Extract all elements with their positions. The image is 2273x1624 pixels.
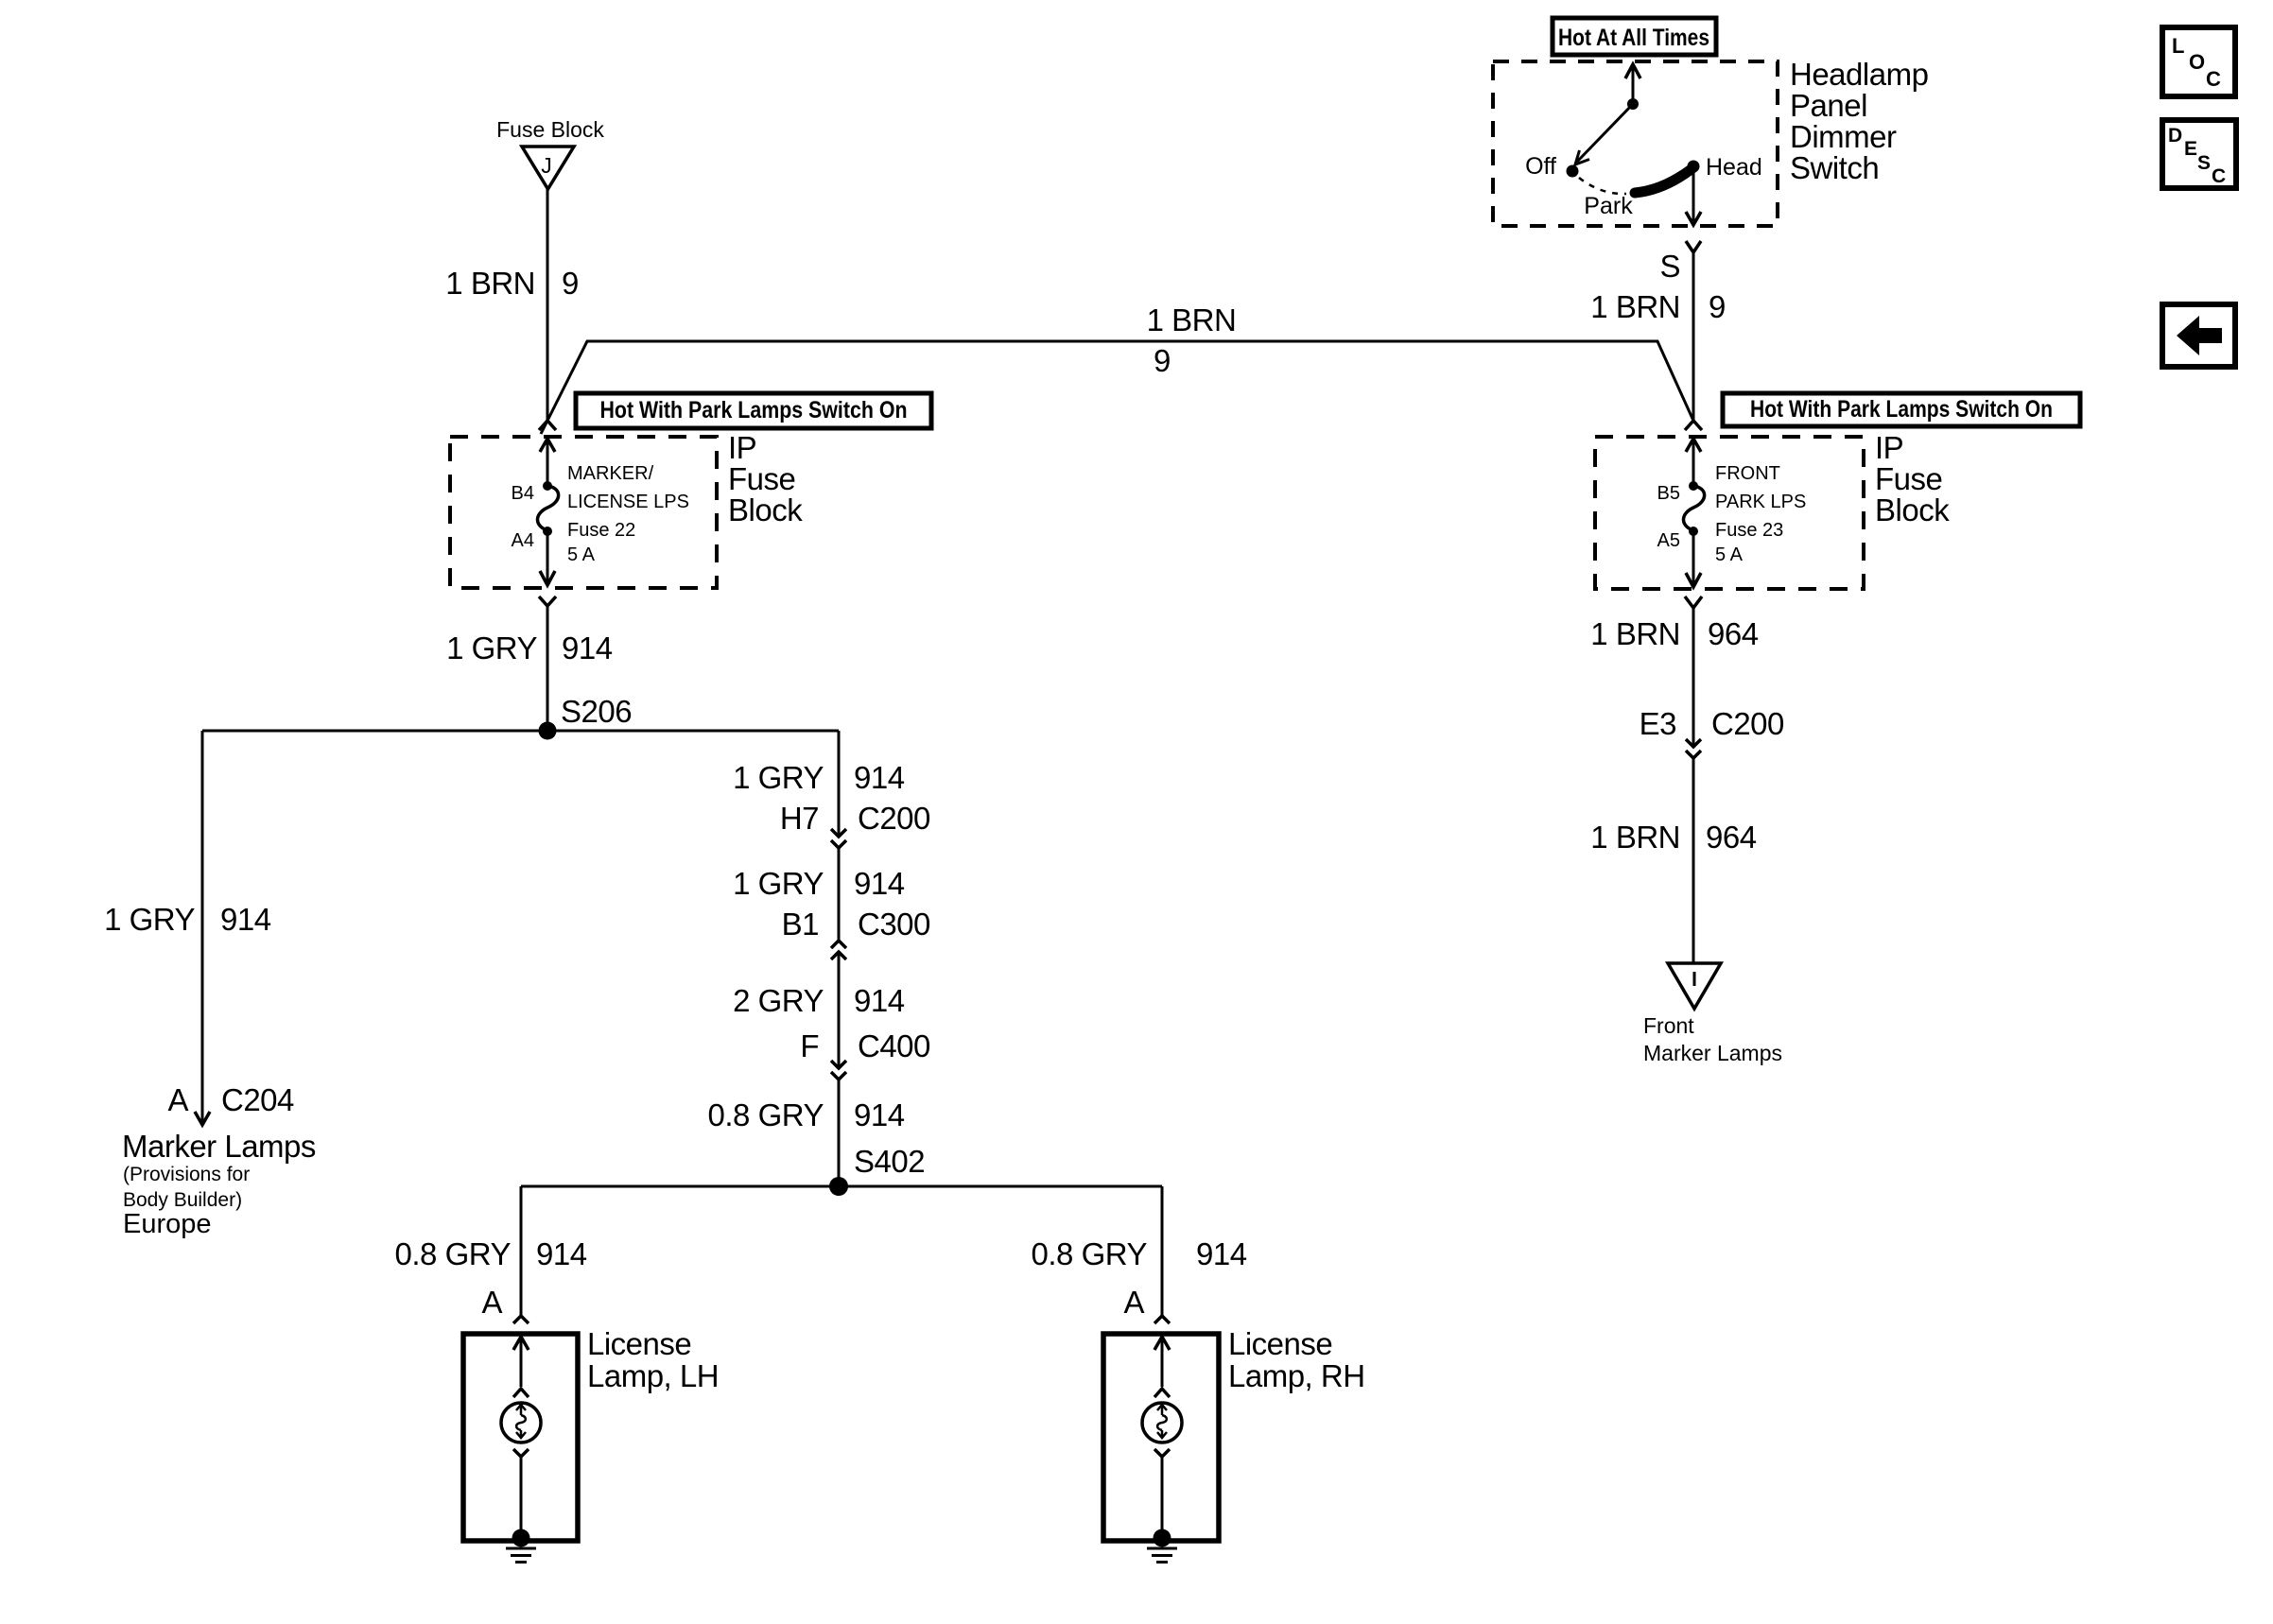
splice S402 dot <box>829 1177 848 1196</box>
terminal arrow down at A4 <box>540 531 555 585</box>
svg-text:IP: IP <box>728 430 756 465</box>
svg-text:Park: Park <box>1584 193 1633 219</box>
pin B5 dot <box>1689 481 1698 491</box>
svg-text:C400: C400 <box>858 1028 930 1063</box>
wire label 1 BRN 964 (lower) <box>1590 820 1756 855</box>
wire label 1 GRY 914 (left branch) <box>104 902 271 937</box>
svg-text:F: F <box>800 1028 819 1063</box>
switch common terminal arrow up <box>1625 64 1640 104</box>
svg-text:L: L <box>2172 34 2184 58</box>
switch arm with arrowhead toward Off <box>1575 104 1633 164</box>
splice S206 dot <box>539 722 557 740</box>
wire S206 branch horizontal <box>202 730 839 733</box>
connector B1 C300 symbol (up) <box>831 941 846 959</box>
right IP Fuse Block name <box>1875 430 1950 527</box>
left IP fuse block dashed box <box>450 437 717 588</box>
wire S206 right branch down <box>838 731 841 836</box>
wire left branch down to C204 <box>201 731 204 1124</box>
fuse 23 text <box>1715 463 1806 565</box>
svg-text:A: A <box>481 1285 502 1320</box>
pin B4 dot <box>543 481 552 491</box>
license lamp LH box <box>463 1334 578 1541</box>
fuse element squiggle Fuse 23 <box>1683 486 1704 530</box>
LH ground symbol <box>506 1548 536 1563</box>
svg-text:1 BRN: 1 BRN <box>1590 289 1680 324</box>
fuse block triangle connector J label <box>496 117 604 142</box>
DESC icon box <box>2162 120 2236 188</box>
svg-text:Marker Lamps: Marker Lamps <box>1643 1041 1782 1065</box>
svg-text:B4: B4 <box>512 483 534 504</box>
svg-text:Head: Head <box>1706 154 1762 181</box>
wire E3 down to front marker lamps <box>1692 758 1695 963</box>
svg-text:C204: C204 <box>221 1082 294 1117</box>
wire 1 BRN 9 horizontal bus <box>541 341 1693 434</box>
connector label B1 C300 <box>782 907 930 942</box>
RH lamp chevron below bulb <box>1154 1449 1170 1457</box>
thick contact arc Park to Head <box>1635 168 1692 193</box>
svg-text:1 BRN: 1 BRN <box>1590 616 1680 651</box>
connector H7 C200 symbol <box>831 829 846 848</box>
wire label 1 BRN 964 (upper) <box>1590 616 1758 651</box>
svg-text:E3: E3 <box>1640 706 1676 741</box>
triangle connector J <box>522 147 574 189</box>
svg-text:1 GRY: 1 GRY <box>104 902 195 937</box>
wire fuse 23 down to E3 <box>1692 608 1695 747</box>
wire C200 to C300 <box>838 848 841 941</box>
bulb LH <box>501 1403 541 1443</box>
LH lamp wire to ground <box>520 1457 523 1538</box>
pin label A (RH) <box>1123 1285 1144 1320</box>
svg-text:9: 9 <box>1154 343 1171 378</box>
terminal arrow down at A5 <box>1686 531 1701 587</box>
svg-text:C: C <box>2212 165 2226 187</box>
connector chevron at LH lamp <box>513 1316 529 1323</box>
svg-text:9: 9 <box>1709 289 1726 324</box>
svg-text:1 GRY: 1 GRY <box>446 631 537 665</box>
switch labels Off Park Head <box>1525 153 1762 219</box>
back arrow icon box <box>2162 304 2235 367</box>
svg-text:A5: A5 <box>1657 530 1680 551</box>
svg-text:Marker Lamps: Marker Lamps <box>122 1129 316 1164</box>
svg-text:Fuse 23: Fuse 23 <box>1715 520 1783 541</box>
pin labels B5 A5 <box>1657 483 1680 551</box>
svg-text:Fuse 22: Fuse 22 <box>567 520 635 541</box>
svg-text:PARK LPS: PARK LPS <box>1715 492 1806 512</box>
svg-text:9: 9 <box>562 266 579 301</box>
pin labels B4 A4 <box>512 483 534 551</box>
header Hot With Park Lamps Switch On (right) <box>1723 393 2080 426</box>
marker lamps europe labels <box>122 1129 316 1239</box>
svg-text:License: License <box>1228 1326 1332 1361</box>
wire label 1 GRY 914 <box>446 631 613 665</box>
svg-text:Hot With Park Lamps Switch On: Hot With Park Lamps Switch On <box>1750 396 2053 423</box>
pin A4 dot <box>543 527 552 536</box>
svg-text:A: A <box>1123 1285 1144 1320</box>
svg-text:B1: B1 <box>782 907 819 942</box>
LH ground dot <box>512 1529 530 1547</box>
svg-text:IP: IP <box>1875 430 1903 465</box>
switch output arrow down <box>1686 166 1701 225</box>
svg-text:Headlamp: Headlamp <box>1790 57 1928 92</box>
svg-text:914: 914 <box>854 1097 905 1132</box>
svg-text:0.8 GRY: 0.8 GRY <box>395 1236 512 1271</box>
svg-text:H7: H7 <box>780 801 819 836</box>
switch position Off dot <box>1567 165 1579 178</box>
switch pivot dot <box>1627 98 1639 110</box>
svg-text:B5: B5 <box>1657 483 1680 504</box>
svg-text:C200: C200 <box>1711 706 1784 741</box>
connector chevron below right fuse block <box>1685 596 1702 608</box>
wire from fuse to S206 <box>547 606 549 731</box>
svg-text:964: 964 <box>1708 616 1759 651</box>
svg-text:914: 914 <box>220 902 271 937</box>
svg-text:2 GRY: 2 GRY <box>733 983 824 1018</box>
svg-text:Off: Off <box>1525 153 1556 180</box>
svg-text:(Provisions for: (Provisions for <box>123 1164 250 1185</box>
svg-text:5 A: 5 A <box>567 544 596 565</box>
svg-text:C: C <box>2206 67 2221 91</box>
svg-text:Front: Front <box>1643 1013 1694 1038</box>
RH lamp terminal arrow <box>1154 1337 1170 1387</box>
wire label 1 GRY 914 (to C200) <box>733 760 905 795</box>
RH lamp wire to ground <box>1161 1457 1164 1538</box>
svg-text:C200: C200 <box>858 801 930 836</box>
svg-text:1 GRY: 1 GRY <box>733 866 824 901</box>
connector chevron below left fuse block <box>539 596 556 606</box>
svg-text:Hot With Park Lamps Switch On: Hot With Park Lamps Switch On <box>600 397 908 423</box>
connector chevron at RH lamp <box>1154 1316 1170 1323</box>
wire label 1 GRY 914 (to C300) <box>733 866 905 901</box>
wire S402 branch horizontal <box>521 1185 1162 1188</box>
connector E3 C200 symbol <box>1686 739 1701 758</box>
LH lamp chevron below bulb <box>513 1449 529 1457</box>
headlamp dimmer switch dashed box <box>1493 61 1778 226</box>
right IP fuse block dashed box <box>1595 437 1864 589</box>
svg-text:914: 914 <box>854 866 905 901</box>
svg-text:Hot At All Times: Hot At All Times <box>1558 25 1709 51</box>
svg-text:C300: C300 <box>858 907 930 942</box>
headlamp panel dimmer switch name <box>1790 57 1928 185</box>
LOC icon box <box>2162 27 2235 96</box>
wire label 0.8 GRY 914 <box>708 1097 905 1132</box>
svg-text:5 A: 5 A <box>1715 544 1744 565</box>
wire label 0.8 GRY 914 (RH) <box>1032 1236 1247 1271</box>
svg-text:964: 964 <box>1706 820 1757 855</box>
license lamp LH name <box>587 1326 719 1393</box>
front marker lamps label <box>1643 1013 1782 1065</box>
LH lamp terminal arrow <box>513 1337 529 1387</box>
LH lamp chevron above bulb <box>513 1389 529 1397</box>
wire label 1 BRN 9 (left) <box>445 266 579 301</box>
svg-text:S: S <box>2197 152 2211 174</box>
svg-text:Block: Block <box>728 492 803 527</box>
svg-text:Fuse: Fuse <box>1875 461 1942 496</box>
license lamp RH name <box>1228 1326 1365 1393</box>
connector label F C400 <box>800 1028 930 1063</box>
connector chevron into right IP fuse block <box>1685 421 1702 430</box>
connector F C400 symbol <box>831 1061 846 1080</box>
svg-text:E: E <box>2184 138 2197 160</box>
terminal arrow up at B5 <box>1686 439 1701 486</box>
svg-text:914: 914 <box>1196 1236 1247 1271</box>
pin A5 dot <box>1689 527 1698 536</box>
svg-text:Fuse: Fuse <box>728 461 795 496</box>
connector label H7 C200 <box>780 801 930 836</box>
header Hot At All Times <box>1553 18 1716 55</box>
svg-text:Block: Block <box>1875 492 1950 527</box>
svg-text:1 GRY: 1 GRY <box>733 760 824 795</box>
svg-text:Switch: Switch <box>1790 150 1879 185</box>
svg-text:1 BRN: 1 BRN <box>1590 820 1680 855</box>
svg-text:914: 914 <box>562 631 613 665</box>
triangle connector I <box>1668 963 1721 1009</box>
wire C400 to S402 <box>838 1080 841 1186</box>
svg-text:Fuse Block: Fuse Block <box>496 117 604 142</box>
svg-text:MARKER/: MARKER/ <box>567 463 654 484</box>
svg-text:914: 914 <box>854 760 905 795</box>
wire label 1 BRN 9 (bus) <box>1147 302 1237 378</box>
svg-text:Lamp, RH: Lamp, RH <box>1228 1358 1365 1393</box>
splice S206 label <box>561 694 632 729</box>
wire label 2 GRY 914 <box>733 983 905 1018</box>
svg-text:A: A <box>167 1082 188 1117</box>
svg-text:LICENSE LPS: LICENSE LPS <box>567 492 689 512</box>
svg-text:0.8 GRY: 0.8 GRY <box>708 1097 824 1132</box>
connector label E3 C200 <box>1640 706 1784 741</box>
terminal label S <box>1659 249 1680 284</box>
wire from J down to IP fuse block <box>547 189 549 421</box>
svg-text:S206: S206 <box>561 694 632 729</box>
svg-text:Europe: Europe <box>123 1209 212 1239</box>
fuse 22 text <box>567 463 689 565</box>
svg-text:License: License <box>587 1326 691 1361</box>
svg-text:914: 914 <box>854 983 905 1018</box>
wire to license lamp RH <box>1161 1186 1164 1316</box>
svg-text:Body Builder): Body Builder) <box>123 1189 242 1211</box>
svg-text:O: O <box>2189 50 2205 74</box>
connector label A C204 <box>167 1082 294 1117</box>
bulb RH <box>1142 1403 1182 1443</box>
wire label 0.8 GRY 914 (LH) <box>395 1236 587 1271</box>
wire label 1 BRN 9 (right) <box>1590 289 1726 324</box>
svg-text:0.8 GRY: 0.8 GRY <box>1032 1236 1148 1271</box>
RH ground symbol <box>1147 1548 1177 1563</box>
svg-text:914: 914 <box>536 1236 587 1271</box>
wire to license lamp LH <box>520 1186 523 1316</box>
fuse element squiggle Fuse 22 <box>537 486 558 530</box>
wire S down to right fuse block <box>1692 252 1695 421</box>
splice S402 label <box>854 1144 925 1179</box>
switch position Head dot <box>1688 161 1700 173</box>
dashed travel arc Off to Park <box>1579 178 1626 194</box>
svg-text:Dimmer: Dimmer <box>1790 119 1897 154</box>
left IP Fuse Block name <box>728 430 803 527</box>
svg-text:D: D <box>2168 125 2182 147</box>
RH ground dot <box>1154 1529 1171 1547</box>
license lamp RH box <box>1103 1334 1219 1541</box>
svg-text:S402: S402 <box>854 1144 925 1179</box>
svg-text:FRONT: FRONT <box>1715 463 1780 484</box>
svg-text:Panel: Panel <box>1790 88 1867 123</box>
header Hot With Park Lamps Switch On (left) <box>576 393 931 428</box>
svg-text:J: J <box>541 153 552 178</box>
pin label A (LH) <box>481 1285 502 1320</box>
svg-text:1 BRN: 1 BRN <box>1147 302 1237 337</box>
svg-text:Lamp, LH: Lamp, LH <box>587 1358 719 1393</box>
svg-text:A4: A4 <box>512 530 534 551</box>
connector A C204 arrow <box>195 1112 210 1125</box>
svg-text:1 BRN: 1 BRN <box>445 266 535 301</box>
connector chevron below dimmer switch <box>1686 241 1701 252</box>
terminal arrow up at B4 <box>540 439 555 486</box>
svg-text:S: S <box>1659 249 1680 284</box>
RH lamp chevron above bulb <box>1154 1389 1170 1397</box>
connector chevron into left IP fuse block <box>539 421 556 430</box>
wire C300 to C400 <box>838 952 841 1068</box>
